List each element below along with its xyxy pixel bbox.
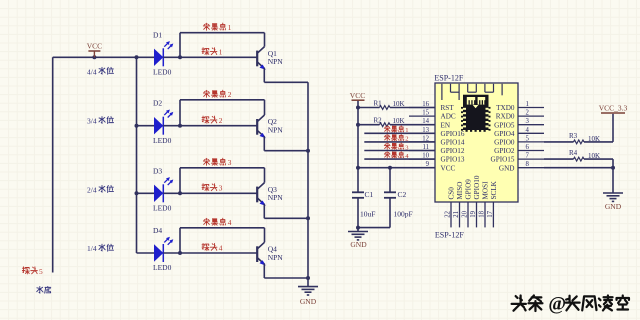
svg-text:@: @	[548, 293, 566, 314]
svg-text:NPN: NPN	[268, 253, 284, 262]
svg-text:16: 16	[422, 101, 429, 108]
svg-text:R4: R4	[569, 149, 578, 157]
svg-text:3/4: 3/4	[87, 117, 97, 126]
svg-text:1/4: 1/4	[87, 244, 97, 253]
svg-text:10uF: 10uF	[360, 210, 375, 219]
svg-text:CS0: CS0	[448, 187, 456, 200]
svg-text:NPN: NPN	[268, 57, 284, 66]
svg-text:GND: GND	[350, 240, 367, 249]
svg-text:NPN: NPN	[268, 193, 284, 202]
svg-text:SCLK: SCLK	[490, 180, 498, 199]
svg-text:3: 3	[228, 158, 232, 167]
svg-text:GND: GND	[300, 297, 317, 306]
svg-text:100pF: 100pF	[394, 210, 413, 219]
svg-text:NPN: NPN	[268, 126, 284, 135]
svg-text:4: 4	[526, 127, 530, 134]
svg-text:MOSI: MOSI	[482, 181, 490, 200]
svg-text:1: 1	[526, 101, 529, 108]
svg-text:6: 6	[526, 144, 530, 151]
svg-text:MISO: MISO	[456, 182, 464, 200]
svg-text:D4: D4	[153, 226, 162, 235]
svg-text:GND: GND	[605, 202, 622, 211]
svg-text:LED0: LED0	[153, 68, 172, 77]
svg-text:7: 7	[526, 153, 530, 160]
svg-text:8: 8	[526, 161, 530, 168]
svg-text:5: 5	[526, 135, 530, 142]
svg-text:C1: C1	[365, 190, 374, 199]
svg-text:12: 12	[422, 135, 429, 142]
svg-text:10: 10	[422, 153, 429, 160]
svg-text:9: 9	[426, 161, 430, 168]
svg-text:2: 2	[526, 110, 530, 117]
svg-text:14: 14	[422, 118, 429, 125]
svg-text:11: 11	[422, 144, 429, 151]
svg-text:LED0: LED0	[153, 136, 172, 145]
svg-text:4: 4	[228, 218, 232, 227]
svg-text:ESP-12F: ESP-12F	[434, 74, 463, 83]
svg-text:RST: RST	[441, 104, 455, 112]
svg-text:LED0: LED0	[153, 204, 172, 213]
svg-text:GND: GND	[499, 164, 515, 172]
svg-text:1: 1	[405, 127, 408, 134]
svg-text:VCC: VCC	[441, 164, 456, 172]
svg-text:VCC_3.3: VCC_3.3	[599, 104, 628, 113]
svg-text:D1: D1	[153, 30, 162, 39]
svg-text:C2: C2	[398, 190, 407, 199]
svg-text:GPIO0: GPIO0	[494, 139, 515, 147]
svg-text:GPIO12: GPIO12	[441, 147, 465, 155]
svg-text:R1: R1	[374, 100, 383, 108]
svg-text:ADC: ADC	[441, 113, 456, 121]
svg-text:GPIO5: GPIO5	[494, 121, 515, 129]
svg-text:2: 2	[228, 90, 232, 99]
svg-text:21: 21	[453, 211, 460, 218]
svg-text:22: 22	[445, 210, 452, 217]
svg-text:D2: D2	[153, 99, 162, 108]
svg-text:GPIO14: GPIO14	[441, 139, 465, 147]
svg-text:10K: 10K	[588, 135, 600, 143]
svg-text:3: 3	[219, 184, 223, 193]
svg-text:4/4: 4/4	[87, 67, 97, 76]
svg-text:TXD0: TXD0	[496, 104, 515, 112]
svg-text:EN: EN	[441, 121, 451, 129]
svg-text:2: 2	[405, 136, 408, 143]
svg-text:LED0: LED0	[153, 263, 172, 272]
svg-text:GPIO9: GPIO9	[465, 179, 473, 200]
svg-text:15: 15	[422, 110, 429, 117]
svg-text:GPIO16: GPIO16	[441, 130, 465, 138]
svg-text:VCC: VCC	[87, 42, 102, 51]
svg-text:ESP-12F: ESP-12F	[435, 231, 464, 240]
svg-text:1: 1	[228, 23, 232, 32]
svg-text:R2: R2	[374, 117, 383, 125]
svg-text:GPIO13: GPIO13	[441, 156, 465, 164]
svg-text:10K: 10K	[393, 100, 405, 108]
svg-text:2/4: 2/4	[87, 186, 97, 195]
svg-text:10K: 10K	[393, 117, 405, 125]
svg-text:GPIO15: GPIO15	[491, 156, 515, 164]
svg-text:17: 17	[487, 210, 494, 217]
svg-text:5: 5	[39, 268, 43, 276]
svg-text:10K: 10K	[588, 152, 600, 160]
svg-text:GPIO10: GPIO10	[473, 175, 481, 199]
svg-text:18: 18	[479, 210, 486, 217]
svg-text:1: 1	[219, 48, 223, 57]
svg-text:20: 20	[462, 210, 469, 217]
svg-text:13: 13	[422, 127, 429, 134]
svg-text:VCC: VCC	[350, 91, 365, 100]
svg-text:D3: D3	[153, 166, 162, 175]
svg-text:3: 3	[526, 118, 530, 125]
svg-text:19: 19	[470, 210, 477, 217]
svg-text:R3: R3	[569, 132, 578, 140]
svg-text:GPIO4: GPIO4	[494, 130, 515, 138]
svg-text:4: 4	[219, 243, 223, 252]
svg-text:RXD0: RXD0	[496, 113, 515, 121]
svg-text:2: 2	[219, 116, 223, 125]
svg-text:GPIO2: GPIO2	[494, 147, 515, 155]
